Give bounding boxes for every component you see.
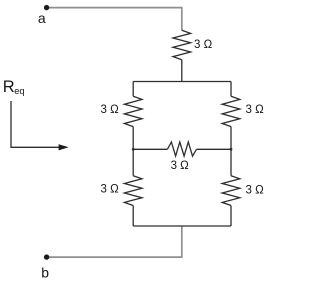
svg-text:3 Ω: 3 Ω <box>194 39 213 51</box>
svg-text:R: R <box>3 78 15 96</box>
svg-text:3 Ω: 3 Ω <box>101 104 120 116</box>
svg-text:b: b <box>41 264 49 280</box>
svg-text:3 Ω: 3 Ω <box>171 160 190 172</box>
svg-text:eq: eq <box>14 86 24 96</box>
svg-text:3 Ω: 3 Ω <box>246 104 265 116</box>
svg-text:3 Ω: 3 Ω <box>246 185 265 197</box>
svg-text:a: a <box>38 10 46 26</box>
svg-text:3 Ω: 3 Ω <box>101 183 120 195</box>
